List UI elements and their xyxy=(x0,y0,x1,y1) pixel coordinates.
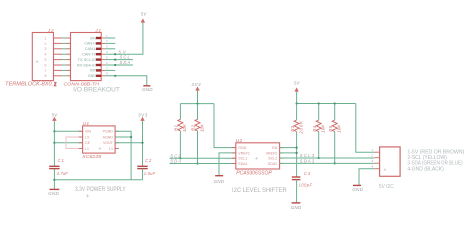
5V rail wire (level shifter) xyxy=(296,92,356,105)
ground symbol (C3) xyxy=(291,203,302,210)
wire 3V3 to U2 row1 xyxy=(214,104,236,148)
svg-text:R3: R3 xyxy=(290,125,295,132)
svg-text:TERMBLOCK-8X0.1: TERMBLOCK-8X0.1 xyxy=(5,82,56,88)
wire stub pin2 xyxy=(105,42,115,44)
supply 3V3 arrow (level shifter) xyxy=(192,82,202,91)
wire VOUT to 3V3 xyxy=(115,121,143,167)
svg-text:200K: 200K xyxy=(298,120,303,135)
svg-text:INT: INT xyxy=(90,69,97,73)
svg-text:C3: C3 xyxy=(304,171,311,176)
ground symbol (J3) xyxy=(352,185,363,192)
connector J3 body (5V I2C) xyxy=(370,147,400,176)
sheet origin cross xyxy=(86,194,89,197)
svg-text:R5: R5 xyxy=(328,125,333,132)
resistor R4 xyxy=(316,104,321,160)
svg-text:C2: C2 xyxy=(145,158,152,163)
svg-text:TX-SCL-IO: TX-SCL-IO xyxy=(78,58,96,62)
svg-text:I/O BREAKOUT: I/O BREAKOUT xyxy=(73,87,120,94)
svg-text:SCL3: SCL3 xyxy=(300,153,315,158)
svg-text:GND: GND xyxy=(352,187,363,192)
resistor R1 xyxy=(178,104,183,160)
wire stub pin3 xyxy=(105,48,115,50)
svg-text:CAN-H: CAN-H xyxy=(84,42,96,46)
svg-text:R1: R1 xyxy=(174,124,179,131)
svg-text:2: 2 xyxy=(370,154,373,158)
ground symbol (U2) xyxy=(214,176,225,184)
svg-text:SDA: SDA xyxy=(120,60,131,65)
svg-text:J2: J2 xyxy=(47,28,54,33)
svg-text:5V: 5V xyxy=(141,12,148,17)
wire SCL3 net xyxy=(280,157,375,159)
U1 pin stubs xyxy=(79,131,119,148)
svg-text:GND: GND xyxy=(88,74,97,78)
wire SDA3 net xyxy=(280,162,375,164)
svg-text:GND: GND xyxy=(238,146,246,150)
svg-text:J1: J1 xyxy=(94,28,101,33)
node EN/VREF2 vertical xyxy=(296,132,298,177)
svg-text:8: 8 xyxy=(44,74,46,78)
resistor R2 xyxy=(195,104,200,165)
svg-text:I2C LEVEL SHIFTER: I2C LEVEL SHIFTER xyxy=(232,188,287,194)
svg-text:4-GND (BLACK): 4-GND (BLACK) xyxy=(407,166,444,172)
svg-text:CAN-TX: CAN-TX xyxy=(82,53,96,57)
svg-text:2: 2 xyxy=(44,42,46,46)
wire EN to node xyxy=(280,147,297,149)
wire row4 J2-J1 xyxy=(54,53,71,55)
svg-text:L1: L1 xyxy=(85,147,89,151)
J1 pin stubs right with pin numbers 1-8 xyxy=(101,34,108,76)
capacitor C1 xyxy=(49,166,59,168)
svg-text:3: 3 xyxy=(106,45,108,49)
wire row7 J2-J1 xyxy=(54,69,71,71)
svg-text:CAN-L: CAN-L xyxy=(85,47,96,51)
3V3 rail wire (level shifter) xyxy=(180,91,214,105)
svg-text:10K: 10K xyxy=(337,124,342,133)
wire VIN U1 xyxy=(54,130,82,132)
capacitor C2 xyxy=(137,166,147,180)
svg-text:VREF2: VREF2 xyxy=(266,151,278,155)
svg-text:1: 1 xyxy=(106,34,108,38)
svg-text:SDA1: SDA1 xyxy=(238,162,247,166)
svg-text:100pF: 100pF xyxy=(299,183,313,188)
resistor R3 xyxy=(294,104,299,132)
svg-text:VIN: VIN xyxy=(90,36,96,40)
ground symbol (power supply) xyxy=(48,189,59,196)
wire VREF2 to node xyxy=(280,152,297,154)
svg-text:XC6228: XC6228 xyxy=(81,154,102,159)
svg-text:5: 5 xyxy=(106,55,108,59)
wire U2 GND row2 xyxy=(219,153,236,175)
svg-text:GND: GND xyxy=(214,179,225,184)
svg-text:3: 3 xyxy=(44,47,46,51)
svg-text:AGND: AGND xyxy=(103,135,114,139)
svg-text:5V: 5V xyxy=(294,81,301,86)
resistor R5 xyxy=(332,104,337,165)
svg-text:RX-SDA-IO: RX-SDA-IO xyxy=(77,63,96,67)
svg-text:3.3V POWER SUPPLY: 3.3V POWER SUPPLY xyxy=(75,187,126,193)
svg-text:1: 1 xyxy=(44,36,46,40)
svg-text:4: 4 xyxy=(44,53,46,57)
svg-text:5V: 5V xyxy=(52,112,59,117)
IC U2 body xyxy=(236,143,280,169)
svg-text:4: 4 xyxy=(106,50,108,54)
connector J1 body xyxy=(71,33,102,81)
svg-text:1.0uF: 1.0uF xyxy=(144,171,156,176)
supply 5V arrow (level shifter) xyxy=(294,81,301,92)
svg-text:1: 1 xyxy=(371,148,373,152)
svg-text:VIN: VIN xyxy=(85,130,91,134)
wire PGND/AGND to ground rail xyxy=(115,131,132,180)
regulator U1 body xyxy=(83,126,116,153)
svg-text:SCL: SCL xyxy=(120,55,131,60)
svg-text:L1: L1 xyxy=(109,147,113,151)
capacitor C3 xyxy=(292,177,301,202)
svg-text:8: 8 xyxy=(106,72,108,76)
wire stub pin7 xyxy=(105,69,115,71)
wire row1 J2-J1 xyxy=(54,37,71,39)
svg-text:PCA9306SSOP: PCA9306SSOP xyxy=(236,171,272,177)
wire row5 J2-J1 xyxy=(54,59,71,61)
ground rail wire (power supply) xyxy=(54,179,142,181)
svg-text:U1: U1 xyxy=(83,121,90,126)
svg-text:GND: GND xyxy=(291,205,302,210)
wire row6 J2-J1 xyxy=(54,64,71,66)
svg-text:SDA3: SDA3 xyxy=(300,159,315,164)
svg-text:GND: GND xyxy=(142,87,153,92)
bracket wire LX to L1 (pale) xyxy=(66,137,83,148)
svg-text:VOUT: VOUT xyxy=(103,141,114,145)
svg-text:7: 7 xyxy=(106,66,108,70)
origin cross of U2 xyxy=(255,157,258,160)
wire row8 J2-J1 xyxy=(54,75,71,77)
origin cross of J3 xyxy=(384,169,387,172)
svg-text:PGND: PGND xyxy=(103,130,114,134)
svg-text:SDA2: SDA2 xyxy=(268,162,277,166)
supply 3V3 arrow (power supply) xyxy=(138,112,148,121)
svg-text:SDA: SDA xyxy=(170,159,181,164)
svg-text:SCL2: SCL2 xyxy=(268,157,277,161)
supply 5V arrow (breakout) xyxy=(141,12,148,23)
wire CE U1 xyxy=(54,142,82,144)
svg-text:5: 5 xyxy=(44,58,46,62)
wire GND from J3 pin4 xyxy=(359,169,375,185)
svg-text:U2: U2 xyxy=(236,138,243,143)
svg-text:10K: 10K xyxy=(182,123,187,132)
wire SDA1 net xyxy=(170,163,236,165)
ground symbol (breakout) xyxy=(142,86,153,92)
svg-text:SCL1: SCL1 xyxy=(238,157,247,161)
svg-text:3V3: 3V3 xyxy=(192,82,202,87)
wire SCL net from J1 pin5 xyxy=(105,59,133,61)
svg-text:5V I2C: 5V I2C xyxy=(379,184,394,190)
svg-text:CE: CE xyxy=(85,141,91,145)
svg-text:10K: 10K xyxy=(321,124,326,133)
supply 5V arrow (power supply) xyxy=(52,112,59,121)
svg-text:4.7uF: 4.7uF xyxy=(57,171,69,176)
svg-text:7: 7 xyxy=(44,69,46,73)
svg-text:3V3: 3V3 xyxy=(138,112,148,117)
svg-text:10K: 10K xyxy=(199,123,204,132)
terminal block J2 body xyxy=(32,33,53,81)
stray glyph after termblock value xyxy=(54,83,56,86)
svg-text:3: 3 xyxy=(371,159,373,163)
svg-text:VREF1: VREF1 xyxy=(238,151,250,155)
svg-text:EN: EN xyxy=(272,146,277,150)
wire GND net from J1 pin8 xyxy=(105,75,147,85)
svg-text:LX: LX xyxy=(85,135,90,139)
wire stub pin1 VIN xyxy=(105,37,115,39)
origin cross of J2 xyxy=(36,61,39,64)
wire 5V vertical rail (power supply) xyxy=(53,121,55,189)
svg-text:4: 4 xyxy=(371,165,373,169)
wire SCL1 net xyxy=(170,157,236,159)
wire 5V to connector J3 xyxy=(356,104,375,153)
wire 5V net from J1 pin4 xyxy=(105,22,143,55)
svg-text:6: 6 xyxy=(44,63,46,67)
svg-text:6: 6 xyxy=(106,61,108,65)
svg-text:2: 2 xyxy=(106,39,108,43)
origin cross of U1 xyxy=(99,147,102,150)
svg-text:R2: R2 xyxy=(191,124,196,131)
svg-text:R4: R4 xyxy=(312,125,317,132)
svg-text:5V: 5V xyxy=(119,49,127,54)
svg-text:C1: C1 xyxy=(58,158,64,163)
wire row2 J2-J1 xyxy=(54,42,71,44)
U2 pin stubs xyxy=(232,148,284,164)
wire row3 J2-J1 xyxy=(54,48,71,50)
svg-text:GND: GND xyxy=(48,191,59,196)
svg-text:SCL: SCL xyxy=(170,153,181,158)
wire SDA net from J1 pin6 xyxy=(105,64,133,66)
